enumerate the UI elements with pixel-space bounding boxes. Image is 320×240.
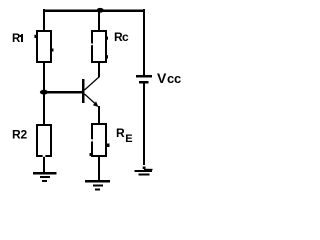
- svg-text:E: E: [125, 133, 132, 145]
- svg-text:R: R: [12, 33, 21, 45]
- svg-text:c: c: [122, 30, 129, 44]
- svg-text:2: 2: [21, 128, 28, 142]
- svg-text:R: R: [116, 126, 125, 140]
- svg-text:V: V: [157, 70, 167, 86]
- svg-text:c: c: [174, 71, 181, 86]
